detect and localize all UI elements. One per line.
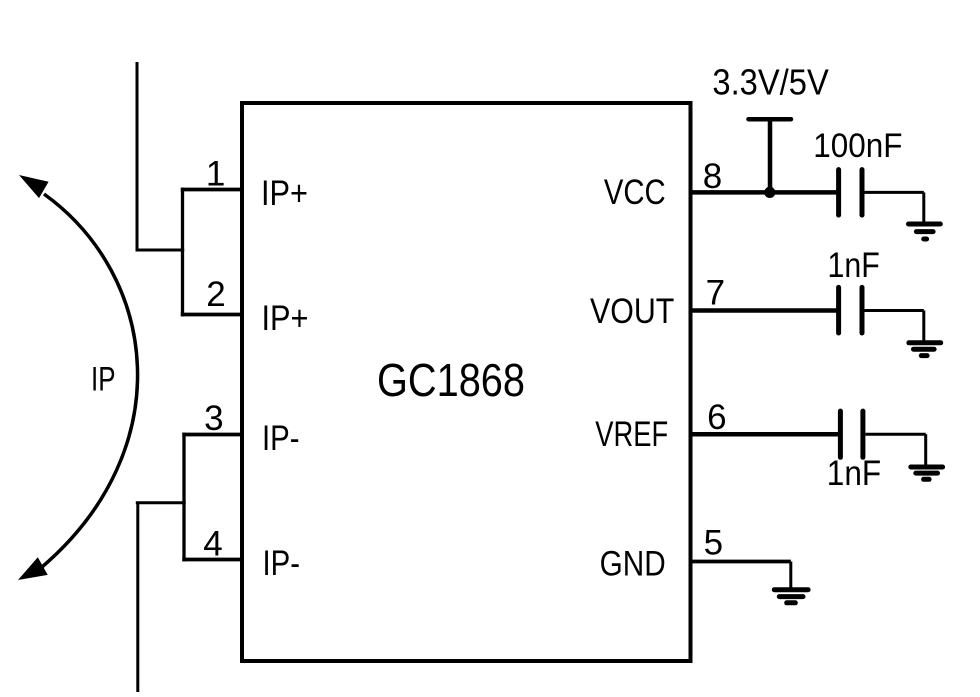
svg-text:3: 3	[204, 399, 223, 438]
svg-text:100nF: 100nF	[813, 127, 902, 165]
svg-text:4: 4	[203, 525, 222, 564]
svg-text:7: 7	[706, 273, 725, 312]
svg-text:2: 2	[206, 275, 225, 314]
svg-text:IP-: IP-	[262, 419, 300, 458]
svg-text:1: 1	[206, 154, 225, 193]
svg-text:VREF: VREF	[595, 415, 668, 454]
svg-text:1nF: 1nF	[828, 246, 880, 285]
svg-text:6: 6	[707, 398, 726, 437]
svg-text:VCC: VCC	[604, 173, 666, 212]
svg-text:VOUT: VOUT	[590, 292, 674, 331]
svg-text:IP+: IP+	[261, 174, 308, 213]
svg-text:3.3V/5V: 3.3V/5V	[712, 62, 828, 103]
svg-text:IP-: IP-	[263, 544, 301, 583]
svg-text:GND: GND	[600, 544, 666, 583]
svg-text:IP+: IP+	[262, 299, 309, 338]
svg-text:IP: IP	[91, 361, 116, 399]
svg-text:1nF: 1nF	[827, 454, 881, 493]
svg-text:5: 5	[704, 524, 723, 563]
svg-text:GC1868: GC1868	[377, 354, 525, 406]
